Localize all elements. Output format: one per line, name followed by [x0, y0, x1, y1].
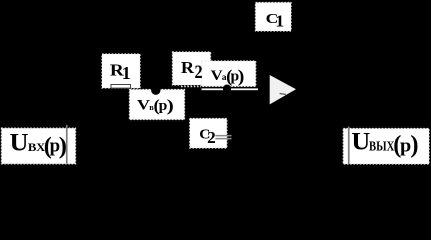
svg-text:Vв(p): Vв(p)	[137, 96, 174, 115]
svg-text:Vа(p): Vа(p)	[211, 66, 245, 87]
